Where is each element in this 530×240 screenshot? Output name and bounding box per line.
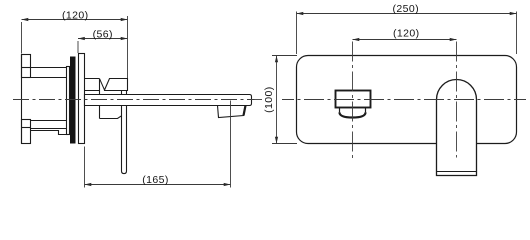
wall plate (side view) (79, 54, 85, 144)
base lower lobe (100, 116, 122, 119)
dimension (120) front view (353, 39, 457, 41)
top inlet flange (22, 55, 31, 78)
bottom inlet pipe (31, 120, 67, 122)
lever blade (side view, hangs behind spout) (122, 91, 127, 174)
seal band (dark) (70, 57, 76, 144)
dimension (250) (297, 12, 517, 55)
svg-text:(250): (250) (393, 3, 420, 15)
svg-text:(120): (120) (62, 9, 89, 21)
handle head (side view) (105, 79, 128, 91)
horizontal centerline (front) (282, 99, 526, 101)
svg-text:(120): (120) (393, 27, 420, 39)
valve body left edge (21, 55, 23, 144)
svg-text:(56): (56) (93, 28, 113, 40)
spout outlet (under tip) (218, 106, 246, 118)
svg-text:(100): (100) (263, 86, 275, 113)
horizontal centerline (13, 99, 262, 101)
body underside step (31, 131, 67, 135)
notch slant (100, 79, 105, 90)
dimension (120) left view (22, 16, 128, 78)
dimension (165) left view (85, 101, 231, 188)
svg-text:(165): (165) (142, 174, 169, 186)
dimension (56) left view (78, 39, 128, 54)
washer column (67, 67, 70, 135)
spout outlet (front view) (336, 91, 371, 108)
spout tube (85, 95, 252, 106)
bottom inlet flange (22, 120, 31, 144)
top inlet pipe (31, 67, 67, 69)
handle (front view) (437, 80, 477, 176)
dimension (100) (272, 56, 297, 144)
handle base block (85, 79, 100, 119)
handle centerline (vertical) (456, 42, 458, 158)
wall plate (front view) (297, 56, 517, 144)
spout centerline (vertical) (352, 42, 354, 160)
